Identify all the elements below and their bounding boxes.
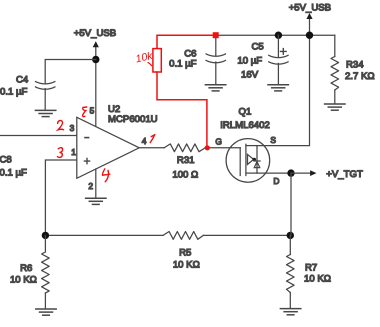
- wire op-amp output: [139, 147, 164, 149]
- node drain junction: [287, 169, 294, 176]
- svg-text:C4: C4: [16, 75, 29, 86]
- svg-text:2: 2: [88, 181, 93, 191]
- wire op-amp pin1 input: [45, 160, 76, 235]
- net +5V_USB (right) power symbol: [306, 13, 312, 35]
- svg-text:10 KΩ: 10 KΩ: [10, 274, 37, 285]
- svg-text:C8: C8: [0, 155, 12, 166]
- svg-text:+V_TGT: +V_TGT: [326, 169, 363, 180]
- Q1 body diode: [254, 161, 260, 168]
- resistor R34: [331, 57, 339, 91]
- wire to C4: [45, 60, 96, 84]
- svg-text:U2: U2: [108, 104, 120, 115]
- svg-text:0.1 µF: 0.1 µF: [0, 168, 27, 179]
- svg-text:10 µF: 10 µF: [237, 56, 262, 67]
- svg-text:0.1 µF: 0.1 µF: [169, 59, 197, 70]
- node red square junction: [213, 32, 219, 38]
- node C5 junction: [275, 32, 282, 39]
- wire Q1 drain to node: [257, 172, 291, 174]
- svg-text:+5V_USB: +5V_USB: [74, 28, 116, 39]
- ground (R7): [280, 309, 300, 315]
- wire pin2 to ground: [95, 169, 97, 198]
- ground (C4): [35, 110, 55, 116]
- annotation 2 (handwritten, pin 3): [58, 120, 64, 129]
- node red dot at gate: [205, 145, 210, 150]
- svg-text:C5: C5: [251, 42, 263, 53]
- ground (op-amp pin2): [86, 198, 106, 204]
- svg-text:IRLML6402: IRLML6402: [220, 120, 270, 131]
- ground (C5): [268, 85, 288, 91]
- wire pin5 vertical: [95, 60, 97, 127]
- wire R5 to R7 node: [203, 234, 290, 236]
- red annotation layer: [57, 32, 218, 182]
- wire bottom net: [45, 234, 163, 236]
- wire op-amp pin3 input: [0, 135, 77, 137]
- svg-text:R5: R5: [179, 247, 191, 258]
- wire red bottom to Q1 gate: [157, 72, 207, 148]
- svg-text:2.7 KΩ: 2.7 KΩ: [345, 71, 375, 82]
- Q1 body diode line: [256, 146, 258, 173]
- resistor R7: [287, 255, 295, 293]
- Q1 gate bar: [239, 148, 241, 176]
- annotation 3 (handwritten, pin 1): [57, 148, 62, 158]
- wire R31 to Q1 gate: [205, 147, 240, 149]
- svg-text:100 Ω: 100 Ω: [172, 169, 198, 180]
- svg-text:R34: R34: [346, 60, 364, 71]
- wire C6 lead: [215, 35, 217, 56]
- wire +5V rail: [216, 34, 335, 36]
- svg-text:R6: R6: [20, 263, 32, 274]
- Q1 source stub: [246, 145, 257, 147]
- capacitor C5 plus mark: [281, 49, 287, 55]
- op-amp U1 triangle: [77, 117, 139, 178]
- annotation 5 (handwritten, near pin 5): [83, 107, 87, 117]
- svg-text:4: 4: [142, 136, 147, 146]
- annotation 1 (handwritten, pin 4): [150, 135, 155, 143]
- op-amp minus mark: [85, 137, 89, 139]
- svg-text:D: D: [273, 176, 279, 186]
- svg-text:16V: 16V: [241, 69, 259, 80]
- Q1 substrate arrow: [248, 154, 254, 164]
- svg-text:3: 3: [70, 123, 75, 133]
- wire C5 lead: [277, 35, 279, 57]
- ground (C6): [205, 85, 225, 91]
- Q1 drain stub: [246, 172, 257, 174]
- wire R7 to ground: [289, 293, 291, 309]
- resistor 10k (hand-drawn): [153, 49, 161, 72]
- transistor Q1 body circle: [226, 139, 270, 183]
- Q1 channel bar: [245, 144, 247, 175]
- svg-text:S: S: [270, 135, 276, 145]
- svg-text:Q1: Q1: [238, 106, 251, 117]
- wire red top (10k resistor net): [157, 35, 216, 48]
- resistor R31: [164, 144, 205, 152]
- wire Q1 source to +5V rail: [257, 35, 310, 145]
- capacitor C6: [206, 54, 225, 85]
- svg-text:+5V_USB: +5V_USB: [289, 3, 331, 14]
- wire R6 to ground: [44, 293, 46, 309]
- annotation 4 (handwritten, pin 2): [103, 169, 110, 182]
- node feedback junction: [42, 232, 49, 239]
- wire R34 lead: [334, 35, 336, 56]
- net +V_TGT arrow: [291, 170, 317, 176]
- svg-text:10k: 10k: [134, 50, 154, 66]
- capacitor C5: [269, 55, 288, 84]
- resistor R6: [42, 235, 50, 293]
- node R7 junction: [287, 232, 294, 239]
- svg-text:10 KΩ: 10 KΩ: [173, 260, 200, 271]
- svg-text:1: 1: [71, 147, 76, 157]
- op-amp plus mark: [84, 159, 89, 164]
- svg-text:G: G: [215, 136, 222, 146]
- svg-text:R31: R31: [177, 155, 195, 166]
- svg-text:10 KΩ: 10 KΩ: [304, 274, 331, 285]
- svg-text:MCP6001U: MCP6001U: [108, 114, 158, 125]
- svg-text:0.1 µF: 0.1 µF: [0, 86, 28, 97]
- resistor R5: [163, 232, 203, 240]
- wire R34 to ground: [334, 90, 336, 104]
- node +5V junction: [306, 32, 313, 39]
- ground (R6): [36, 309, 56, 315]
- wire drain to R7: [289, 173, 292, 254]
- node junction at +5V_USB left: [92, 56, 99, 63]
- capacitor C4: [36, 82, 55, 111]
- net +5V_USB (left) power symbol: [93, 41, 99, 59]
- ground (R34): [325, 104, 345, 110]
- svg-text:5: 5: [90, 105, 95, 115]
- svg-text:R7: R7: [305, 263, 317, 274]
